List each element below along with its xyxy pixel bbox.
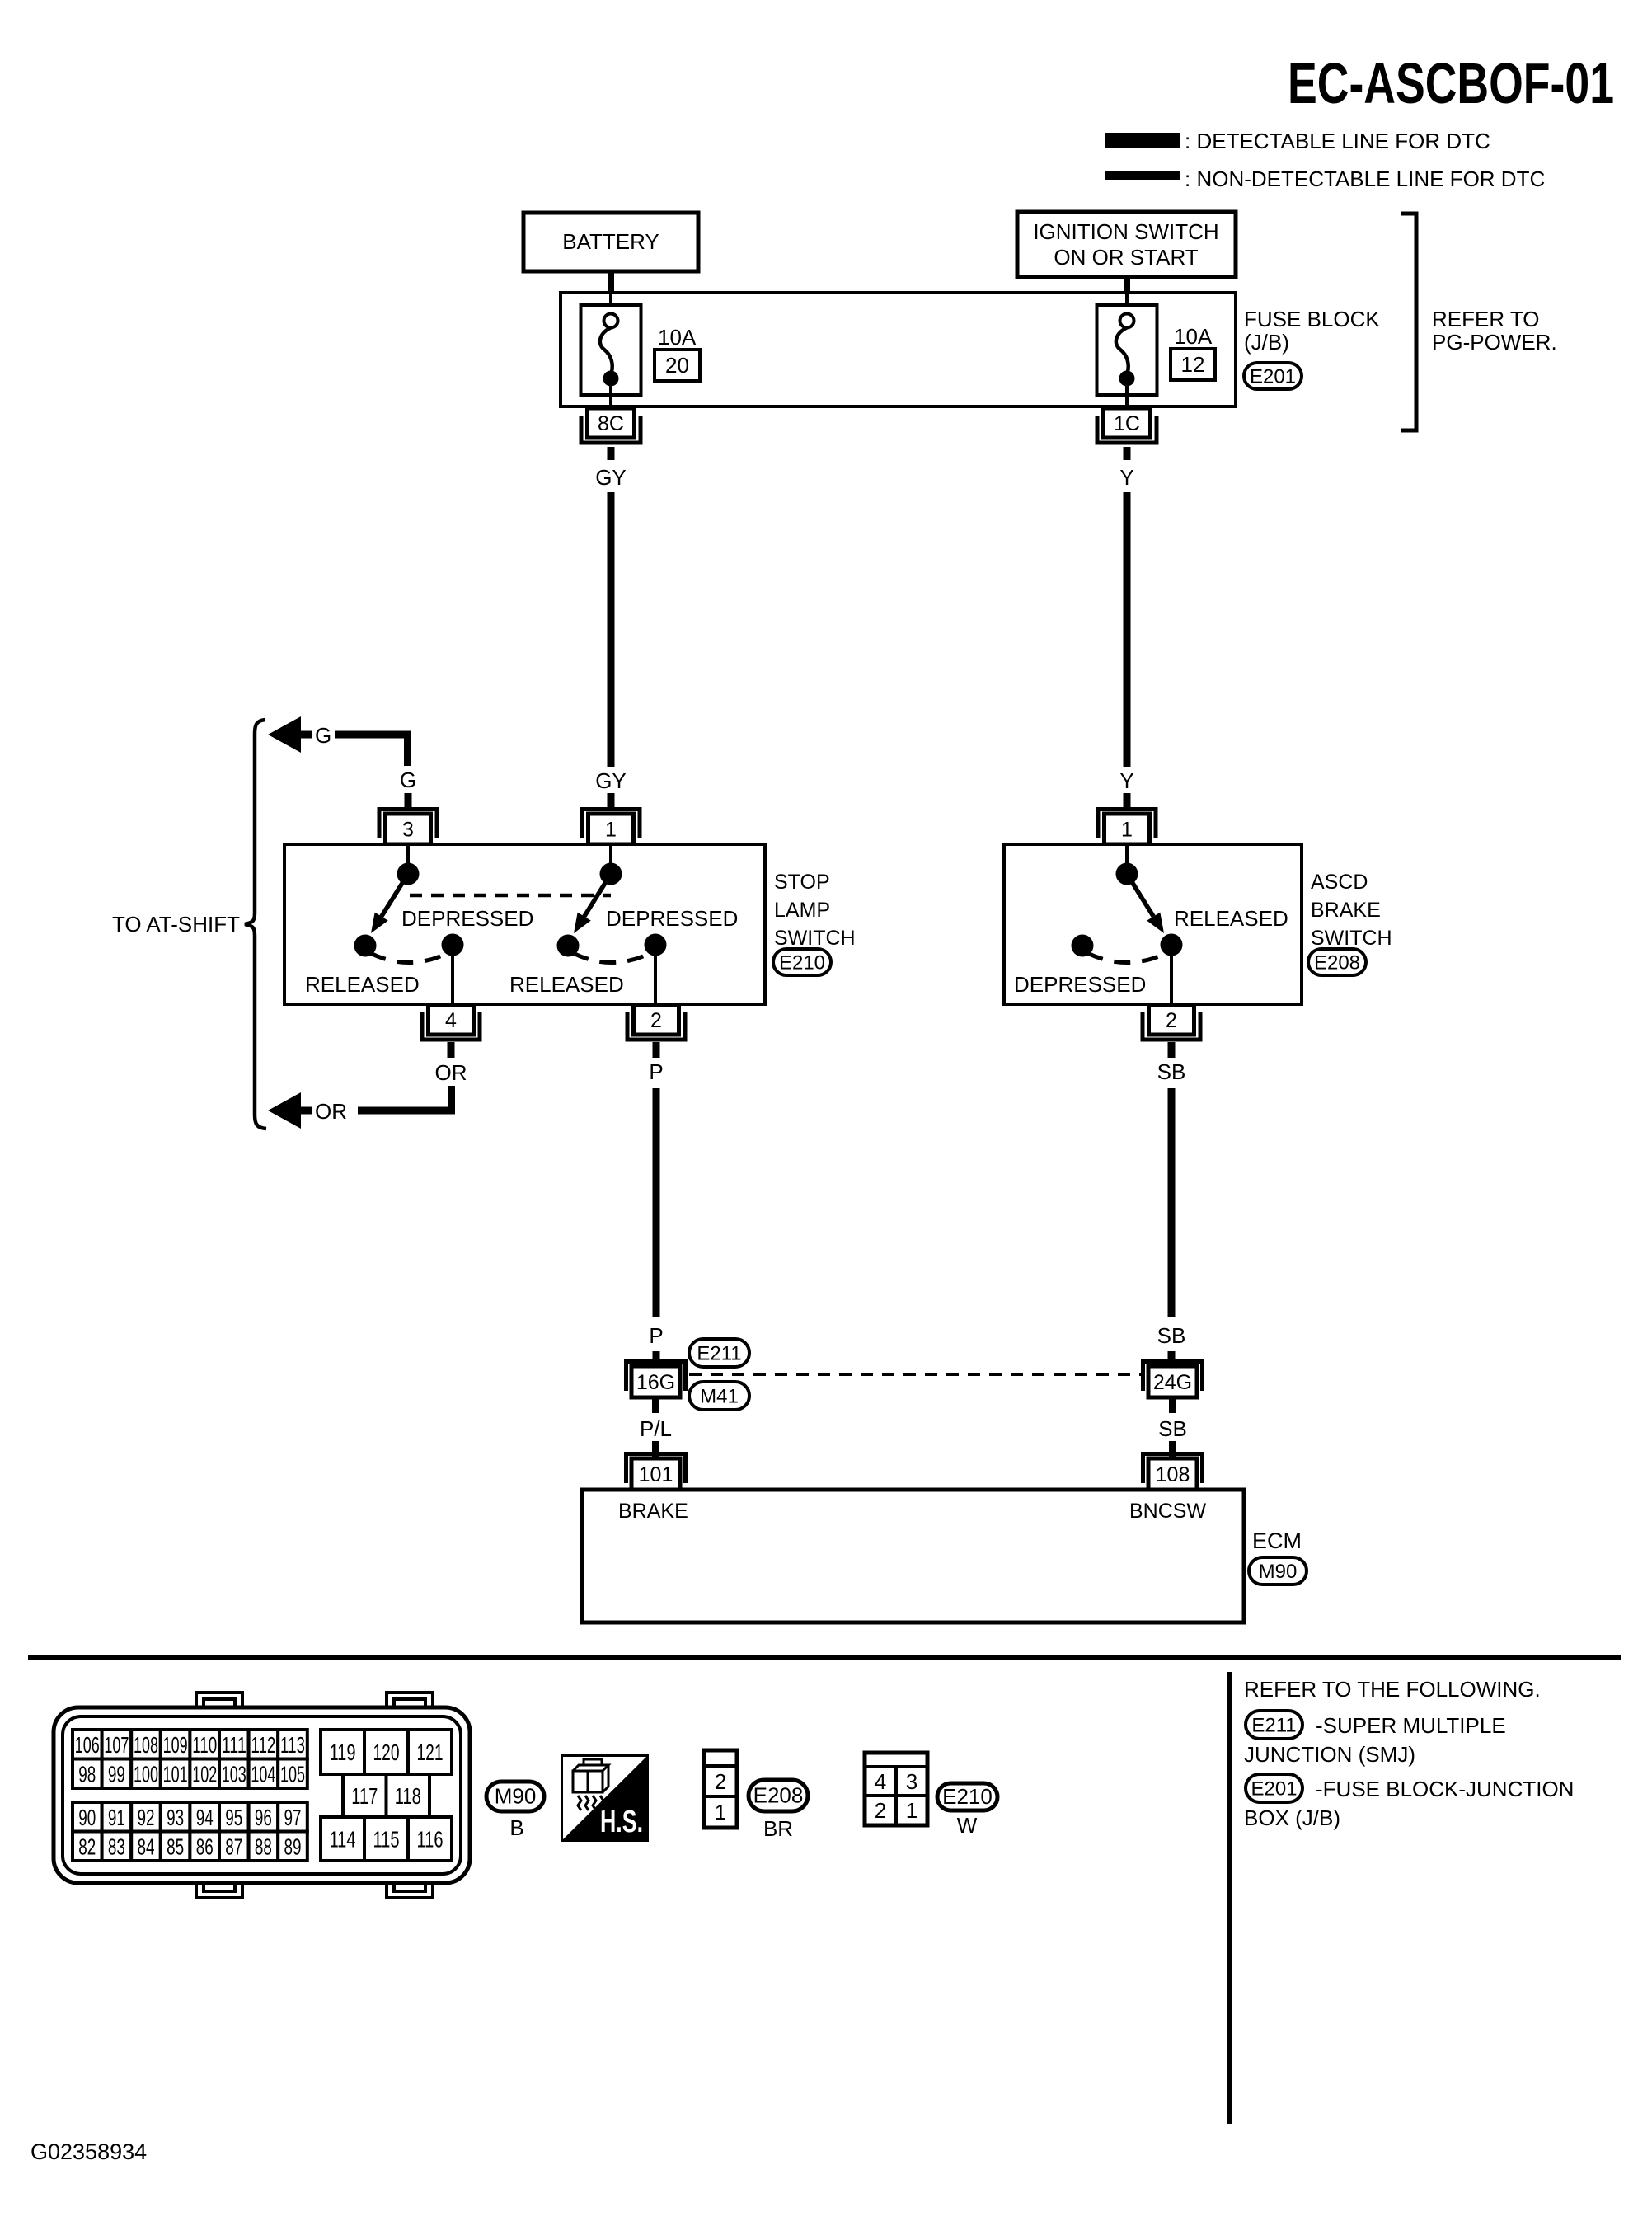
ganged switch dashed link: [410, 894, 611, 898]
svg-text:93: 93: [167, 1805, 184, 1830]
ecm pin 99: [102, 1759, 132, 1789]
wire SB into ECM 108: [1169, 1441, 1176, 1458]
svg-text:PG-POWER.: PG-POWER.: [1432, 330, 1557, 355]
svg-text:2: 2: [1166, 1009, 1177, 1032]
svg-text:: DETECTABLE LINE FOR DTC: : DETECTABLE LINE FOR DTC: [1185, 129, 1490, 153]
svg-text:ASCD: ASCD: [1311, 871, 1368, 894]
ecm pin 98: [73, 1759, 102, 1789]
wire P from connector 2: [653, 1042, 660, 1058]
svg-text:100: 100: [134, 1761, 158, 1787]
svg-text:Y: Y: [1119, 465, 1133, 490]
svg-text:: NON-DETECTABLE LINE FOR DTC: : NON-DETECTABLE LINE FOR DTC: [1185, 167, 1545, 191]
svg-text:95: 95: [225, 1805, 242, 1830]
connector id M90 oval: [1249, 1557, 1307, 1585]
svg-text:121: 121: [417, 1740, 444, 1765]
ecm pin 90: [73, 1802, 102, 1832]
column divider line: [1227, 1672, 1232, 2124]
svg-text:119: 119: [330, 1740, 356, 1765]
svg-text:REFER TO: REFER TO: [1432, 307, 1540, 331]
ecm connector M90 pin-out shell: [196, 1693, 242, 1709]
svg-text:REFER TO THE FOLLOWING.: REFER TO THE FOLLOWING.: [1244, 1677, 1541, 1702]
svg-text:105: 105: [280, 1761, 305, 1787]
connector id M90 oval (pin-out): [486, 1782, 544, 1811]
svg-text:H.S.: H.S.: [600, 1805, 643, 1839]
ecm pin 111: [219, 1730, 249, 1759]
svg-text:4: 4: [445, 1009, 457, 1032]
svg-text:BRAKE: BRAKE: [618, 1500, 688, 1523]
ecm pin 95: [219, 1802, 249, 1832]
wire SW1a output down: [451, 952, 454, 1005]
wire P/L into ECM 101: [652, 1441, 659, 1458]
wire connector 3 to pivot: [406, 844, 410, 864]
ecm pin 96: [249, 1802, 279, 1832]
ecm pin 100: [131, 1759, 161, 1789]
ecm pin 113: [278, 1730, 307, 1759]
ecm pin 115: [364, 1817, 408, 1861]
svg-text:E210: E210: [779, 952, 825, 974]
svg-text:BRAKE: BRAKE: [1311, 899, 1381, 922]
fuse F2 number box 12: [1171, 349, 1215, 380]
wire Y vertical: [1124, 492, 1131, 767]
ecm pin 83: [102, 1832, 132, 1862]
svg-text:E211: E211: [1251, 1715, 1296, 1737]
ecm pin 88: [249, 1832, 279, 1862]
svg-text:103: 103: [222, 1761, 246, 1787]
ecm pin 118: [387, 1774, 430, 1817]
legend non-detectable line sample bar: [1105, 171, 1180, 180]
svg-text:DEPRESSED: DEPRESSED: [1014, 972, 1146, 997]
svg-text:90: 90: [78, 1805, 96, 1830]
connector id E201 oval: [1244, 363, 1302, 389]
stop lamp switch box E210: [284, 844, 765, 1004]
switch SW2 dashed travel arc: [1087, 953, 1166, 963]
ecm pin 84: [131, 1832, 161, 1862]
ecm pin 87: [219, 1832, 249, 1862]
svg-text:101: 101: [639, 1463, 673, 1486]
svg-text:111: 111: [222, 1732, 246, 1758]
arrow to at-shift OR: [268, 1092, 301, 1129]
svg-text:82: 82: [78, 1834, 96, 1859]
wire into fuse F1: [609, 293, 612, 315]
svg-text:1C: 1C: [1114, 412, 1140, 435]
svg-text:SB: SB: [1157, 1323, 1186, 1348]
connector 8C: [581, 416, 641, 443]
svg-text:88: 88: [255, 1834, 272, 1859]
svg-text:P: P: [649, 1323, 663, 1348]
svg-text:E210: E210: [942, 1784, 993, 1809]
svg-text:10A: 10A: [658, 325, 697, 350]
connector E210 pin-out: [865, 1753, 927, 1825]
connector id M41 oval: [689, 1382, 749, 1410]
wire into fuse F2: [1125, 293, 1129, 315]
stop lamp switch connector 3: [379, 810, 437, 838]
ascd brake switch connector 2: [1143, 1012, 1200, 1040]
svg-text:3: 3: [906, 1769, 918, 1794]
svg-text:B: B: [509, 1815, 523, 1840]
stop lamp switch connector 1: [582, 810, 640, 838]
svg-text:117: 117: [351, 1783, 378, 1809]
ecm pin 91: [102, 1802, 132, 1832]
wire 24G down: [1169, 1397, 1176, 1413]
svg-text:104: 104: [251, 1761, 275, 1787]
svg-text:115: 115: [373, 1827, 400, 1852]
ecm pin 82: [73, 1832, 102, 1862]
ecm terminal 108: [1143, 1454, 1203, 1484]
svg-text:FUSE BLOCK: FUSE BLOCK: [1244, 307, 1380, 331]
svg-text:86: 86: [196, 1834, 214, 1859]
switch SW1b contact released node: [557, 935, 580, 957]
svg-text:85: 85: [167, 1834, 184, 1859]
switch SW1b arm arrow: [584, 874, 611, 917]
wire SB into 24G: [1168, 1351, 1176, 1366]
svg-text:16G: 16G: [636, 1371, 675, 1394]
svg-text:3: 3: [402, 819, 414, 842]
wire OR horizontal: [358, 1107, 455, 1115]
svg-text:SWITCH: SWITCH: [774, 927, 856, 950]
svg-text:DEPRESSED: DEPRESSED: [401, 906, 533, 931]
svg-text:97: 97: [284, 1805, 302, 1830]
ecm pin 121: [408, 1730, 452, 1774]
separator line: [28, 1655, 1621, 1660]
svg-text:91: 91: [108, 1805, 125, 1830]
svg-text:113: 113: [280, 1732, 305, 1758]
ecm terminal 101: [627, 1454, 686, 1484]
svg-text:92: 92: [138, 1805, 155, 1830]
svg-text:1: 1: [906, 1798, 918, 1823]
svg-text:96: 96: [255, 1805, 272, 1830]
wire SW1b output down: [654, 952, 657, 1005]
ignition switch box: [1017, 212, 1236, 277]
wire 8C down: [608, 447, 615, 460]
svg-text:STOP: STOP: [774, 871, 830, 894]
svg-text:20: 20: [665, 353, 689, 378]
svg-text:G: G: [315, 723, 331, 748]
svg-text:98: 98: [78, 1761, 96, 1787]
svg-text:E208: E208: [753, 1783, 804, 1808]
svg-text:1: 1: [715, 1800, 726, 1824]
svg-text:EC-ASCBOF-01: EC-ASCBOF-01: [1288, 51, 1614, 115]
svg-text:M41: M41: [700, 1386, 739, 1408]
svg-text:DEPRESSED: DEPRESSED: [606, 906, 738, 931]
ecm pin 86: [190, 1832, 219, 1862]
ecm pin 119: [321, 1730, 364, 1774]
wire SW2 output down: [1170, 952, 1173, 1005]
svg-text:110: 110: [192, 1732, 217, 1758]
svg-text:1: 1: [605, 819, 617, 842]
svg-text:SB: SB: [1158, 1416, 1187, 1441]
stop lamp switch connector 4: [422, 1012, 480, 1040]
connector id E210 oval: [773, 949, 831, 975]
brace to at-shift: [245, 720, 266, 1129]
ecm pin 103: [219, 1759, 249, 1789]
wire connector 1 to pivot: [609, 844, 612, 864]
svg-text:1: 1: [1121, 819, 1133, 842]
svg-text:87: 87: [225, 1834, 242, 1859]
svg-text:Y: Y: [1119, 768, 1133, 793]
switch SW1b pivot node: [600, 863, 622, 885]
switch SW2 pivot node: [1116, 863, 1138, 885]
svg-text:118: 118: [395, 1783, 421, 1809]
connector id E208 oval: [1308, 949, 1366, 975]
fuse block J/B box: [561, 293, 1236, 406]
ecm pin 114: [321, 1817, 364, 1861]
wire P into 16G: [653, 1351, 660, 1366]
svg-text:108: 108: [134, 1732, 158, 1758]
connector id E208 oval (pin-out): [749, 1780, 808, 1811]
svg-text:120: 120: [373, 1740, 400, 1765]
svg-text:RELEASED: RELEASED: [1174, 906, 1288, 931]
wire ignition switch to fuse block: [1124, 277, 1130, 293]
ecm pin 89: [278, 1832, 307, 1862]
ecm pin 102: [190, 1759, 219, 1789]
legend detectable line sample bar: [1105, 133, 1180, 148]
wire GY vertical: [608, 492, 615, 767]
ecm pin 101: [161, 1759, 190, 1789]
svg-text:112: 112: [251, 1732, 275, 1758]
svg-text:OR: OR: [435, 1060, 467, 1085]
ecm pin 94: [190, 1802, 219, 1832]
svg-text:RELEASED: RELEASED: [509, 972, 624, 997]
svg-text:BOX (J/B): BOX (J/B): [1244, 1805, 1340, 1830]
svg-text:ECM: ECM: [1252, 1528, 1302, 1553]
dashed link 16G to 24G: [689, 1373, 1143, 1376]
ecm pin 104: [249, 1759, 279, 1789]
svg-text:E201: E201: [1250, 366, 1296, 388]
ecm pin 97: [278, 1802, 307, 1832]
svg-text:JUNCTION (SMJ): JUNCTION (SMJ): [1244, 1742, 1415, 1767]
ecm pin 116: [408, 1817, 452, 1861]
ecm pin 112: [249, 1730, 279, 1759]
svg-text:8C: 8C: [598, 412, 624, 435]
svg-text:IGNITION SWITCH: IGNITION SWITCH: [1033, 219, 1218, 244]
fuse F2 10A: [1097, 305, 1157, 395]
connector id E211 oval (smj): [689, 1339, 749, 1367]
arrow to at-shift G: [268, 716, 301, 753]
h.s. hand-scan logo: [561, 1754, 649, 1842]
connector id E210 oval (pin-out): [937, 1783, 997, 1810]
ecm pin 109: [161, 1730, 190, 1759]
wire P vertical: [653, 1088, 660, 1317]
svg-text:BR: BR: [763, 1816, 793, 1841]
ascd brake switch box E208: [1004, 844, 1302, 1004]
switch SW1a contact output node: [442, 934, 464, 956]
ecm pin 107: [102, 1730, 132, 1759]
svg-text:E208: E208: [1314, 952, 1360, 974]
connector E208 pin-out: [704, 1750, 737, 1828]
svg-text:M90: M90: [1259, 1561, 1298, 1583]
svg-text:P/L: P/L: [640, 1416, 672, 1441]
switch SW1b dashed travel arc: [573, 953, 650, 963]
svg-text:107: 107: [104, 1732, 129, 1758]
ecm pin 120: [364, 1730, 408, 1774]
switch SW1a pivot node: [397, 863, 420, 885]
svg-text:102: 102: [192, 1761, 217, 1787]
wire 1C down: [1124, 447, 1131, 460]
ecm pin 110: [190, 1730, 219, 1759]
svg-text:TO AT-SHIFT: TO AT-SHIFT: [112, 912, 240, 937]
svg-text:2: 2: [715, 1769, 726, 1794]
svg-text:LAMP: LAMP: [774, 899, 830, 922]
svg-text:(J/B): (J/B): [1244, 330, 1289, 355]
svg-text:116: 116: [417, 1827, 444, 1852]
switch SW2 contact output node: [1161, 934, 1183, 956]
connector 24G: [1143, 1362, 1203, 1392]
svg-text:SWITCH: SWITCH: [1311, 927, 1392, 950]
svg-text:94: 94: [196, 1805, 214, 1830]
connector 1C: [1097, 416, 1157, 443]
ecm pin 106: [73, 1730, 102, 1759]
svg-text:84: 84: [138, 1834, 155, 1859]
svg-text:2: 2: [875, 1798, 886, 1823]
svg-text:2: 2: [650, 1009, 662, 1032]
svg-text:-FUSE BLOCK-JUNCTION: -FUSE BLOCK-JUNCTION: [1316, 1777, 1574, 1801]
svg-text:BNCSW: BNCSW: [1129, 1500, 1206, 1523]
fuse F1 number box 20: [655, 350, 700, 381]
wire 16G down: [652, 1397, 659, 1413]
switch SW1b contact output node: [645, 934, 667, 956]
wire Y into ASCD connector 1: [1124, 793, 1131, 809]
wire OR from connector 4: [448, 1042, 455, 1058]
svg-text:M90: M90: [495, 1784, 537, 1809]
switch SW1a contact released node: [354, 935, 377, 957]
svg-text:83: 83: [108, 1834, 125, 1859]
connector 16G: [627, 1362, 686, 1392]
switch SW1a dashed travel arc: [370, 953, 448, 963]
bracket refer to pg-power: [1401, 214, 1416, 430]
svg-text:GY: GY: [595, 768, 627, 793]
svg-text:12: 12: [1181, 352, 1205, 377]
svg-text:G02358934: G02358934: [31, 2139, 147, 2164]
switch SW2 contact depressed node: [1072, 935, 1094, 957]
svg-text:24G: 24G: [1153, 1371, 1192, 1394]
wire G into connector 3: [405, 793, 412, 809]
svg-text:106: 106: [75, 1732, 100, 1758]
svg-text:G: G: [400, 768, 416, 792]
svg-text:OR: OR: [315, 1099, 347, 1124]
svg-text:101: 101: [163, 1761, 188, 1787]
svg-text:W: W: [957, 1813, 978, 1838]
stop lamp switch connector 2: [627, 1012, 685, 1040]
connector id E211 oval (legend): [1246, 1711, 1302, 1739]
svg-text:P: P: [649, 1059, 663, 1084]
switch SW2 arm arrow: [1127, 874, 1153, 917]
wire fuse F2 to connector 1C: [1125, 385, 1129, 408]
ecm pin 85: [161, 1832, 190, 1862]
svg-text:E211: E211: [697, 1343, 741, 1365]
svg-text:ON OR START: ON OR START: [1054, 245, 1198, 270]
svg-text:BATTERY: BATTERY: [562, 229, 659, 254]
battery B1 box: [523, 213, 698, 271]
wire ascd connector 1 to pivot: [1125, 844, 1129, 864]
svg-text:10A: 10A: [1174, 324, 1213, 349]
svg-text:RELEASED: RELEASED: [305, 972, 420, 997]
wire GY into connector 1: [608, 793, 615, 809]
fuse F1 10A: [581, 305, 641, 395]
svg-text:4: 4: [875, 1769, 886, 1794]
svg-text:99: 99: [108, 1761, 125, 1787]
wire G horizontal: [335, 731, 411, 739]
wire fuse F1 to connector 8C: [609, 385, 612, 408]
connector id E201 oval (legend): [1246, 1774, 1302, 1802]
wire SB vertical: [1168, 1088, 1176, 1317]
switch SW1a arm arrow: [382, 874, 408, 917]
ascd brake switch connector 1: [1098, 810, 1156, 838]
svg-text:114: 114: [330, 1827, 356, 1852]
svg-text:89: 89: [284, 1834, 302, 1859]
svg-text:SB: SB: [1157, 1059, 1186, 1084]
ecm pin 108: [131, 1730, 161, 1759]
ecm pin 92: [131, 1802, 161, 1832]
wire SB from ascd connector 2: [1168, 1042, 1176, 1058]
ecm pin 93: [161, 1802, 190, 1832]
svg-text:E201: E201: [1251, 1778, 1297, 1801]
svg-text:108: 108: [1156, 1463, 1190, 1486]
ecm pin 105: [278, 1759, 307, 1789]
svg-text:GY: GY: [595, 465, 627, 490]
wire battery to fuse block: [608, 271, 614, 293]
svg-text:-SUPER MULTIPLE: -SUPER MULTIPLE: [1316, 1713, 1506, 1738]
ecm pin 117: [343, 1774, 387, 1817]
ecm box M90: [582, 1490, 1244, 1622]
svg-text:109: 109: [163, 1732, 188, 1758]
